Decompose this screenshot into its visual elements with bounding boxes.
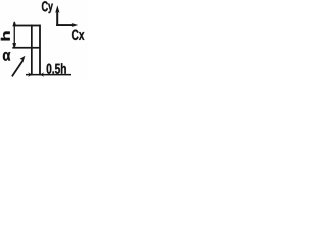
0.5h label [47, 63, 66, 74]
h label (rotated) [1, 32, 10, 41]
0.5h left arrowhead pointing right at web extension [28, 72, 32, 77]
section bottom edge [12, 47, 40, 49]
Cx axis arrowhead [72, 23, 79, 27]
0.5h dimension line [26, 74, 71, 76]
h dimension bottom arrowhead [12, 43, 16, 48]
Cy label [42, 1, 53, 13]
section top edge [14, 25, 41, 27]
section right edge, extended as 0.5h extension line [39, 25, 41, 76]
section middle web line, extended as 0.5h extension line [31, 25, 33, 76]
Cy axis arrowhead [55, 5, 59, 13]
Cy axis line [56, 12, 58, 27]
h dimension top arrowhead [12, 22, 16, 27]
0.5h right arrowhead pointing left at right-edge extension [40, 72, 44, 77]
h dimension line [14, 22, 15, 48]
Cx axis line [56, 24, 73, 26]
alpha principal-axis arrow [12, 56, 26, 77]
alpha label [3, 52, 10, 61]
background [0, 0, 89, 79]
Cx label [72, 30, 84, 40]
